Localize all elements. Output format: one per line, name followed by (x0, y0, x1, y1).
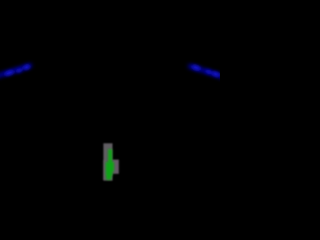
nitrogen N2 bright core blobs (191, 64, 220, 77)
bond to nitrogen N1 (blue streak, left) (0, 66, 30, 77)
chlorine atom label Cl (green glyph) (106, 149, 114, 179)
nitrogen N1 bright core blobs (4, 64, 31, 77)
chlorine label background patch (gray) (103, 143, 119, 180)
bond to nitrogen N2 (blue streak, right) (190, 66, 223, 77)
